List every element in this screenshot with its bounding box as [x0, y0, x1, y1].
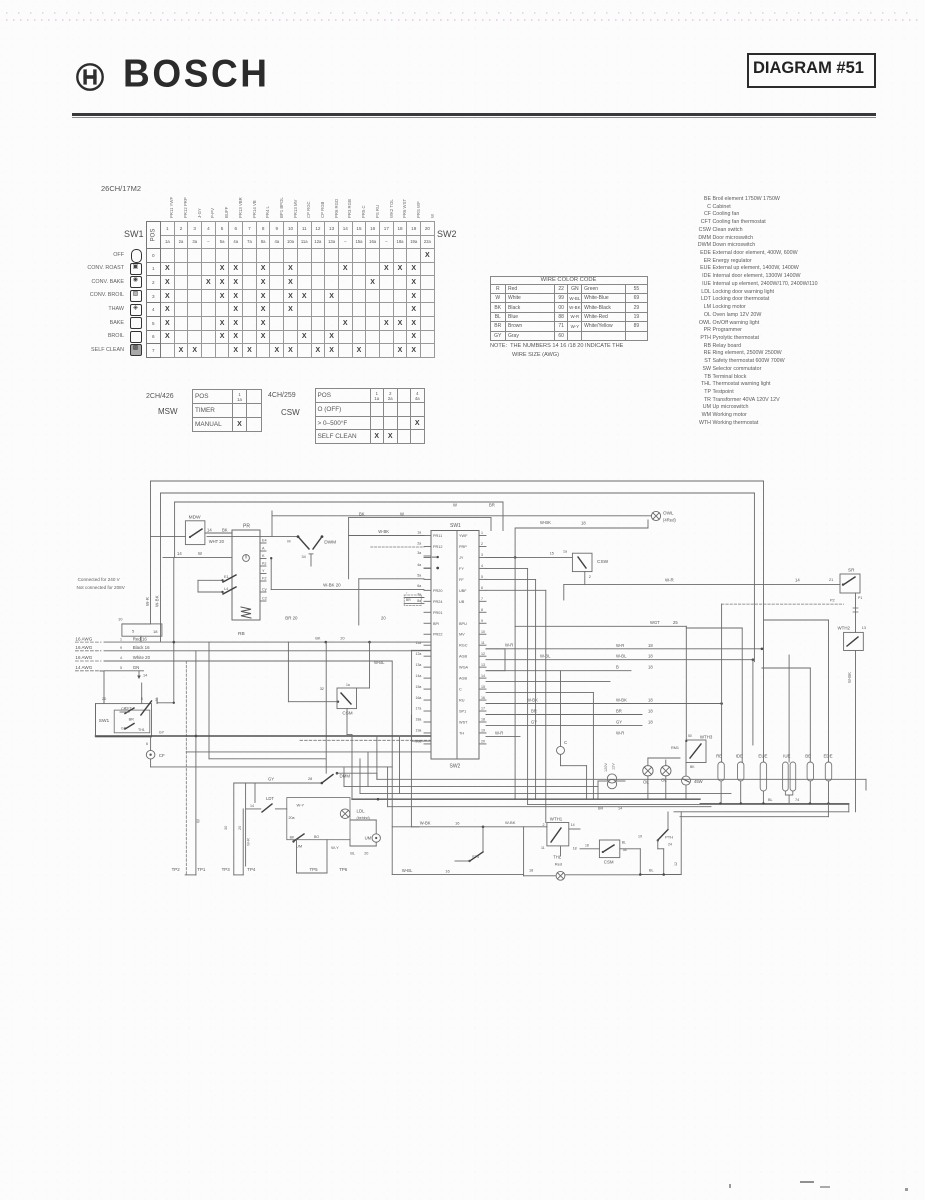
svg-text:10: 10	[481, 630, 485, 634]
wire stair y793	[360, 759, 731, 794]
svg-text:BL: BL	[768, 798, 773, 802]
wire GN supply	[75, 665, 147, 679]
svg-text:BR: BR	[129, 717, 135, 721]
svg-text:WTH3: WTH3	[700, 735, 713, 740]
svg-text:18: 18	[648, 698, 653, 703]
svg-text:15: 15	[481, 685, 485, 689]
wire Red supply	[75, 636, 430, 642]
svg-text:20: 20	[340, 637, 344, 641]
wire bundle verticals center	[486, 528, 546, 823]
svg-text:MV: MV	[459, 633, 465, 637]
selector switch SW1 block	[96, 697, 174, 737]
thermostat WTH1	[541, 817, 580, 857]
double rule under header	[72, 113, 876, 116]
svg-text:TH: TH	[459, 731, 464, 735]
motor CF cooling fan	[146, 737, 392, 767]
MSW small table	[146, 393, 174, 400]
svg-text:3: 3	[481, 553, 483, 557]
svg-text:SW1: SW1	[450, 523, 461, 529]
svg-text:UB: UB	[459, 600, 465, 604]
svg-text:PR01: PR01	[433, 611, 443, 615]
BOSCH logo	[73, 60, 107, 94]
svg-text:P1: P1	[858, 596, 862, 600]
svg-text:W-BK: W-BK	[527, 698, 538, 703]
svg-text:16: 16	[455, 821, 460, 826]
rotated column headers	[169, 197, 174, 218]
svg-text:OL: OL	[661, 778, 667, 783]
svg-text:24: 24	[668, 843, 672, 847]
svg-text:W-R: W-R	[145, 596, 150, 606]
wire 7a 8a stubs	[404, 591, 424, 606]
svg-text:C2: C2	[262, 597, 267, 601]
svg-text:Red: Red	[555, 862, 562, 867]
wire WGT 25	[515, 620, 686, 740]
lamp LDL	[340, 809, 369, 820]
element BE	[805, 754, 813, 804]
svg-text:TH1: TH1	[138, 728, 145, 732]
mode row labels	[0, 252, 124, 258]
svg-text:14: 14	[795, 578, 800, 583]
svg-text:4: 4	[481, 564, 483, 568]
svg-text:9: 9	[120, 646, 122, 650]
svg-text:↑: ↑	[406, 591, 408, 595]
svg-text:4: 4	[120, 656, 122, 660]
svg-text:20: 20	[364, 852, 368, 856]
wire: vertical feed left	[173, 558, 175, 703]
svg-text:PR24: PR24	[433, 600, 443, 604]
svg-text:Y: Y	[262, 569, 265, 573]
svg-text:W-BK: W-BK	[616, 698, 627, 703]
svg-text:GY: GY	[268, 777, 274, 782]
wire bus y816	[680, 804, 828, 817]
connector SW1/SW2 column	[431, 523, 479, 770]
svg-text:W-Y: W-Y	[297, 803, 305, 808]
svg-text:W-BK: W-BK	[155, 595, 160, 607]
svg-text:PR12: PR12	[433, 545, 443, 549]
svg-text:W: W	[198, 551, 202, 556]
svg-text:18: 18	[153, 629, 158, 634]
svg-text:TP4: TP4	[247, 867, 256, 872]
wire BR 20 label	[285, 616, 386, 621]
svg-text:W-BK: W-BK	[505, 820, 516, 825]
svg-text:A: A	[262, 547, 265, 551]
svg-text:12: 12	[674, 862, 678, 866]
svg-text:GY: GY	[531, 719, 537, 724]
wire: third border loop	[175, 502, 503, 558]
lamp OL 1	[643, 758, 653, 799]
svg-text:CSM: CSM	[604, 860, 614, 865]
svg-text:18: 18	[648, 643, 653, 648]
element RE	[716, 754, 724, 804]
svg-text:14: 14	[143, 674, 147, 678]
svg-text:1: 1	[481, 531, 483, 535]
svg-text:W-Y: W-Y	[331, 845, 339, 850]
svg-text:18: 18	[585, 844, 589, 848]
node TP labels	[172, 867, 348, 872]
svg-text:CP: CP	[121, 707, 127, 711]
svg-text:3a: 3a	[417, 551, 421, 555]
wire bus y751	[186, 751, 431, 753]
svg-text:BL: BL	[649, 869, 654, 873]
svg-text:RU: RU	[459, 699, 465, 703]
svg-text:12: 12	[481, 652, 485, 656]
svg-text:W-BL: W-BL	[374, 660, 385, 665]
svg-text:14: 14	[250, 804, 254, 808]
svg-text:SR: SR	[848, 568, 855, 573]
faint dotted rows at very top	[6, 12, 918, 14]
svg-text:GY: GY	[159, 731, 165, 735]
svg-text:4a: 4a	[417, 563, 421, 567]
svg-text:16: 16	[445, 868, 450, 873]
programmer PR pin labels	[260, 539, 267, 602]
svg-text:DMM: DMM	[340, 774, 351, 779]
wire bus y811	[528, 804, 849, 811]
thermostat WTH3	[671, 734, 713, 769]
svg-text:14 AWG: 14 AWG	[75, 665, 92, 670]
element IUE	[783, 754, 796, 804]
svg-text:PR20: PR20	[433, 589, 443, 593]
svg-text:74: 74	[795, 798, 799, 802]
svg-text:10: 10	[118, 617, 123, 622]
svg-text:19a: 19a	[416, 729, 422, 733]
switch PTH lower	[620, 812, 673, 875]
lamp THL	[553, 855, 640, 881]
transformer TR	[598, 763, 625, 800]
wire vertical x196	[195, 651, 201, 875]
svg-text:SW2: SW2	[450, 764, 461, 770]
svg-text:18: 18	[648, 654, 653, 659]
wire White supply	[75, 655, 392, 661]
svg-text:16 AWG: 16 AWG	[75, 636, 92, 641]
wire bracket pins 11-13	[486, 649, 505, 671]
svg-text:5: 5	[481, 575, 483, 579]
wire left edge step	[118, 617, 162, 643]
wire: outer border top/right loop	[151, 481, 764, 762]
switch CSM mid	[337, 683, 357, 735]
wire vertical x209	[209, 642, 326, 759]
svg-text:15a: 15a	[416, 685, 422, 689]
svg-text:1a: 1a	[417, 531, 421, 535]
element EDE	[824, 754, 833, 804]
svg-text:18: 18	[581, 521, 586, 526]
svg-text:RGC: RGC	[459, 644, 468, 648]
svg-text:34: 34	[302, 555, 306, 559]
wire W-R to SR	[564, 578, 840, 601]
svg-text:14: 14	[481, 674, 485, 678]
wire W-Y BL labels	[297, 840, 377, 873]
svg-text:W-R: W-R	[495, 730, 503, 735]
svg-text:PR11: PR11	[433, 534, 442, 538]
svg-text:PR: PR	[243, 524, 250, 530]
svg-text:RB: RB	[238, 631, 245, 637]
svg-text:12a: 12a	[416, 652, 422, 656]
svg-text:BK: BK	[290, 836, 295, 840]
switch SR	[840, 568, 862, 633]
svg-text:20: 20	[238, 826, 242, 830]
svg-text:6a: 6a	[417, 584, 421, 588]
svg-text:2: 2	[481, 542, 483, 546]
svg-text:Connected for 240 V: Connected for 240 V	[78, 577, 121, 582]
svg-text:W: W	[196, 819, 201, 823]
programmer PR	[163, 524, 260, 621]
lamp OL 2	[648, 758, 680, 799]
svg-text:1a: 1a	[563, 550, 567, 554]
svg-text:13a: 13a	[416, 663, 422, 667]
connector pin rows	[424, 531, 486, 744]
svg-text:ST3: ST3	[472, 855, 479, 859]
svg-text:UM: UM	[365, 836, 372, 841]
svg-text:GY: GY	[616, 719, 622, 724]
svg-text:TP3: TP3	[222, 867, 231, 872]
wire stair y786	[368, 752, 598, 787]
svg-text:CF: CF	[159, 753, 165, 758]
svg-text:PRP: PRP	[459, 545, 467, 549]
svg-text:P2: P2	[830, 599, 835, 603]
stray scan specks bottom	[729, 1184, 731, 1188]
switch UM in box	[292, 834, 319, 849]
svg-text:Cy: Cy	[262, 588, 267, 592]
svg-text:TP2: TP2	[172, 867, 181, 872]
svg-text:W-BK: W-BK	[540, 520, 551, 525]
wire W-BK 16 row	[392, 820, 547, 862]
svg-text:12V: 12V	[612, 763, 616, 770]
wire vertical x245 TP4	[246, 783, 251, 866]
connector left pin stubs lower	[416, 641, 432, 744]
switch CSW	[486, 550, 609, 585]
svg-text:W-R: W-R	[505, 643, 513, 648]
svg-text:BR: BR	[489, 503, 495, 508]
lamp OWL	[272, 511, 676, 537]
svg-text:AGB: AGB	[459, 677, 467, 681]
svg-text:WTH2: WTH2	[838, 626, 851, 631]
svg-text:(behind): (behind)	[357, 816, 370, 820]
wire vertical x326	[325, 642, 327, 773]
svg-text:C: C	[564, 740, 567, 745]
svg-text:120V: 120V	[604, 763, 608, 772]
wire vertical x369	[357, 642, 370, 688]
svg-text:2: 2	[543, 823, 545, 827]
svg-text:C: C	[459, 688, 462, 692]
wire bus y740 dashed	[300, 739, 431, 741]
svg-text:JY: JY	[459, 556, 464, 560]
switch MDW	[151, 515, 233, 545]
svg-text:11: 11	[481, 641, 485, 645]
svg-text:BL: BL	[622, 841, 626, 845]
node junction dots on supply lines	[173, 637, 371, 644]
svg-text:18a: 18a	[416, 718, 422, 722]
svg-text:BR: BR	[406, 598, 411, 602]
svg-text:W-BL: W-BL	[402, 868, 413, 873]
DIAGRAM #51 box	[747, 53, 876, 88]
svg-text:11: 11	[541, 846, 545, 850]
svg-text:EUE: EUE	[758, 754, 767, 759]
svg-text:8a: 8a	[417, 599, 421, 603]
svg-text:LDL: LDL	[357, 809, 366, 814]
svg-text:16: 16	[481, 696, 485, 700]
svg-text:M: M	[287, 540, 290, 544]
svg-text:50: 50	[688, 734, 692, 738]
wire CP stub	[120, 707, 129, 731]
svg-text:YWF: YWF	[459, 534, 468, 538]
svg-text:13: 13	[862, 626, 866, 630]
svg-text:2a: 2a	[417, 542, 421, 546]
svg-text:20: 20	[481, 740, 485, 744]
wire thick bus y736	[96, 704, 431, 736]
mode icons	[131, 249, 142, 263]
svg-text:W: W	[453, 503, 457, 508]
wire PR11 row	[349, 529, 424, 536]
svg-text:WHT 20: WHT 20	[209, 539, 225, 544]
svg-text:Red 16: Red 16	[133, 636, 148, 641]
switch ER contacts at PR	[198, 575, 236, 594]
wire element feeds vertical	[686, 604, 828, 762]
svg-text:14: 14	[207, 528, 212, 533]
wire bracket left of SW2	[412, 650, 431, 741]
svg-text:18: 18	[648, 719, 653, 724]
svg-text:WGT: WGT	[650, 620, 660, 625]
svg-text:16 AWG: 16 AWG	[75, 655, 92, 660]
svg-text:DWM: DWM	[324, 540, 336, 546]
switch CSM lower	[580, 840, 627, 865]
motor UM	[350, 820, 380, 842]
svg-text:2: 2	[589, 575, 591, 579]
svg-text:TP6: TP6	[339, 867, 348, 872]
wire Black supply	[75, 645, 430, 651]
svg-text:(4Red): (4Red)	[663, 518, 676, 523]
svg-text:28: 28	[308, 777, 312, 781]
svg-text:BR: BR	[616, 709, 622, 714]
svg-text:K: K	[262, 554, 265, 558]
svg-text:CSM: CSM	[342, 711, 352, 716]
svg-text:GP: GP	[121, 727, 127, 731]
svg-text:WGA: WGA	[459, 666, 469, 670]
svg-text:7: 7	[481, 597, 483, 601]
svg-text:SP1: SP1	[459, 710, 466, 714]
svg-text:GN: GN	[133, 665, 140, 670]
switch DMM door	[255, 772, 377, 803]
thermostat LDT	[246, 796, 287, 812]
wire W-BK 20 row	[270, 557, 424, 590]
svg-text:7a: 7a	[417, 593, 421, 597]
svg-text:AGB: AGB	[459, 655, 467, 659]
svg-text:White 20: White 20	[133, 655, 151, 660]
svg-text:18: 18	[648, 665, 653, 670]
switch WTH2	[838, 626, 867, 812]
svg-text:BR 20: BR 20	[285, 616, 298, 621]
svg-text:W-BK 20: W-BK 20	[323, 583, 341, 588]
wire vertical x399 x411	[400, 715, 420, 827]
wire vertical x288	[288, 642, 339, 703]
svg-text:32: 32	[320, 687, 324, 691]
svg-text:CSW: CSW	[597, 559, 609, 565]
svg-text:E4: E4	[262, 539, 267, 543]
svg-text:FY: FY	[459, 567, 464, 571]
svg-text:11a: 11a	[416, 641, 422, 645]
svg-text:WTH1: WTH1	[550, 817, 563, 822]
svg-text:W-R: W-R	[616, 643, 624, 648]
relay RB coil	[238, 607, 251, 637]
svg-text:W-BK: W-BK	[378, 529, 389, 534]
svg-text:F2: F2	[262, 577, 266, 581]
svg-text:RM1: RM1	[671, 746, 679, 750]
ground C cabinet	[557, 671, 587, 800]
wire elements bottom bus	[700, 798, 849, 812]
wire vertical x186	[185, 661, 187, 875]
svg-text:SW1: SW1	[99, 718, 110, 724]
svg-text:LDT: LDT	[266, 796, 274, 801]
svg-text:21: 21	[829, 578, 833, 582]
svg-text:BO: BO	[314, 835, 319, 839]
svg-text:L4: L4	[224, 587, 228, 591]
svg-text:18: 18	[573, 847, 577, 851]
wire: second border loop	[161, 493, 755, 662]
wire bus y799	[352, 798, 700, 801]
wire stair risers	[344, 768, 368, 786]
wire stair y779	[377, 736, 866, 790]
svg-text:W-BL: W-BL	[616, 654, 627, 659]
wire riser to SW1 block	[100, 671, 175, 704]
svg-text:BPU: BPU	[459, 622, 467, 626]
svg-text:5: 5	[120, 666, 122, 670]
svg-text:W-R: W-R	[616, 730, 624, 735]
thermostat PTH	[682, 763, 703, 800]
wire THL left to W-BK junction	[524, 827, 557, 876]
svg-text:19: 19	[638, 835, 642, 839]
wire color code table	[490, 276, 648, 341]
svg-text:14: 14	[177, 551, 182, 556]
node junction dots right	[752, 648, 764, 662]
wire bottom run	[639, 812, 681, 876]
svg-text:OL: OL	[643, 780, 649, 785]
svg-text:B: B	[616, 665, 619, 670]
wire stair y806	[388, 767, 711, 807]
svg-text:1: 1	[120, 637, 122, 641]
big switch matrix table	[146, 221, 435, 358]
svg-text:8: 8	[481, 608, 483, 612]
wire 5a row	[359, 574, 424, 626]
assembly: locking box	[287, 798, 350, 840]
svg-text:16a: 16a	[416, 696, 422, 700]
svg-text:1a: 1a	[346, 683, 350, 687]
svg-text:13: 13	[481, 663, 485, 667]
CSW small table	[268, 392, 296, 399]
svg-text:6: 6	[146, 742, 148, 746]
svg-text:19: 19	[481, 729, 485, 733]
svg-text:W-R: W-R	[246, 838, 251, 846]
wire W-BL 16 bottom	[392, 868, 523, 874]
svg-text:17a: 17a	[416, 707, 422, 711]
svg-text:Black 16: Black 16	[133, 645, 150, 650]
svg-text:EDE: EDE	[824, 754, 833, 759]
svg-text:W-R: W-R	[665, 578, 674, 583]
svg-text:BK: BK	[315, 637, 321, 641]
svg-text:6: 6	[481, 586, 483, 590]
svg-text:THL: THL	[553, 855, 562, 860]
svg-text:MDW: MDW	[189, 515, 201, 521]
svg-text:15: 15	[550, 552, 554, 556]
svg-text:PR22: PR22	[433, 633, 443, 637]
svg-text:PTH: PTH	[665, 835, 673, 840]
wire PR12 row (dashed)	[371, 542, 424, 548]
svg-text:TP5: TP5	[310, 867, 319, 872]
svg-text:BK: BK	[690, 765, 695, 769]
svg-text:20a: 20a	[289, 816, 295, 820]
wire labels mid	[495, 643, 551, 736]
svg-text:UBF: UBF	[459, 589, 467, 593]
svg-text:BPI: BPI	[433, 622, 439, 626]
svg-text:14: 14	[571, 823, 575, 827]
svg-text:18: 18	[481, 718, 485, 722]
